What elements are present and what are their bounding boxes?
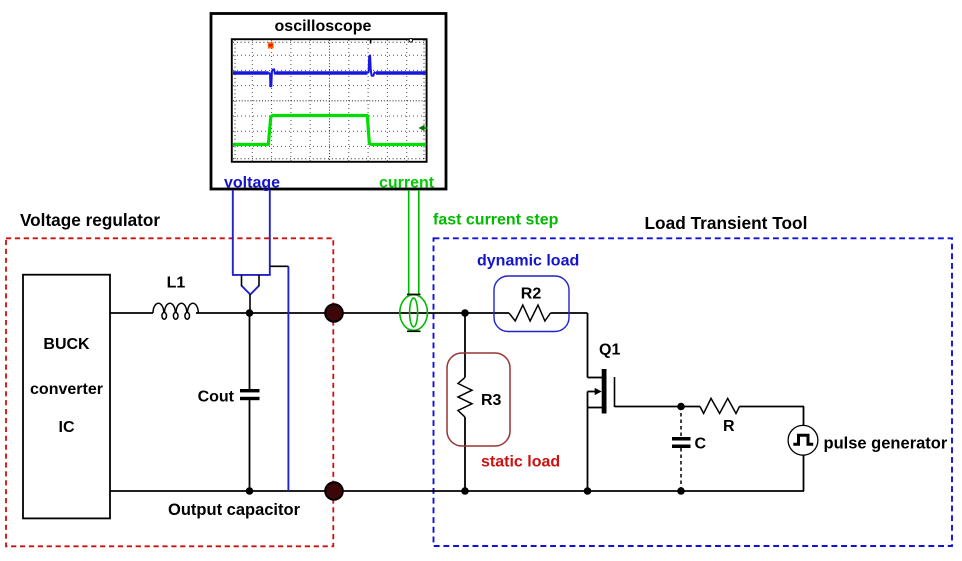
svg-text:IC: IC xyxy=(59,419,75,436)
svg-text:fast current step: fast current step xyxy=(433,211,559,228)
svg-text:converter: converter xyxy=(30,381,103,398)
svg-text:R: R xyxy=(723,418,735,435)
svg-text:Cout: Cout xyxy=(198,389,235,406)
svg-text:oscilloscope: oscilloscope xyxy=(275,18,372,35)
svg-text:pulse generator: pulse generator xyxy=(824,435,948,453)
svg-text:R3: R3 xyxy=(481,392,502,409)
svg-text:Load Transient Tool: Load Transient Tool xyxy=(645,213,808,233)
svg-text:C: C xyxy=(695,436,707,453)
svg-text:Output capacitor: Output capacitor xyxy=(168,501,301,519)
svg-text:BUCK: BUCK xyxy=(43,336,90,353)
svg-text:R2: R2 xyxy=(521,285,542,302)
svg-text:Voltage regulator: Voltage regulator xyxy=(20,210,160,230)
svg-text:static load: static load xyxy=(481,454,560,471)
svg-text:current: current xyxy=(379,175,435,192)
svg-text:Q1: Q1 xyxy=(599,342,620,359)
svg-text:voltage: voltage xyxy=(224,175,280,192)
svg-text:dynamic load: dynamic load xyxy=(477,252,579,269)
svg-text:L1: L1 xyxy=(167,275,186,292)
